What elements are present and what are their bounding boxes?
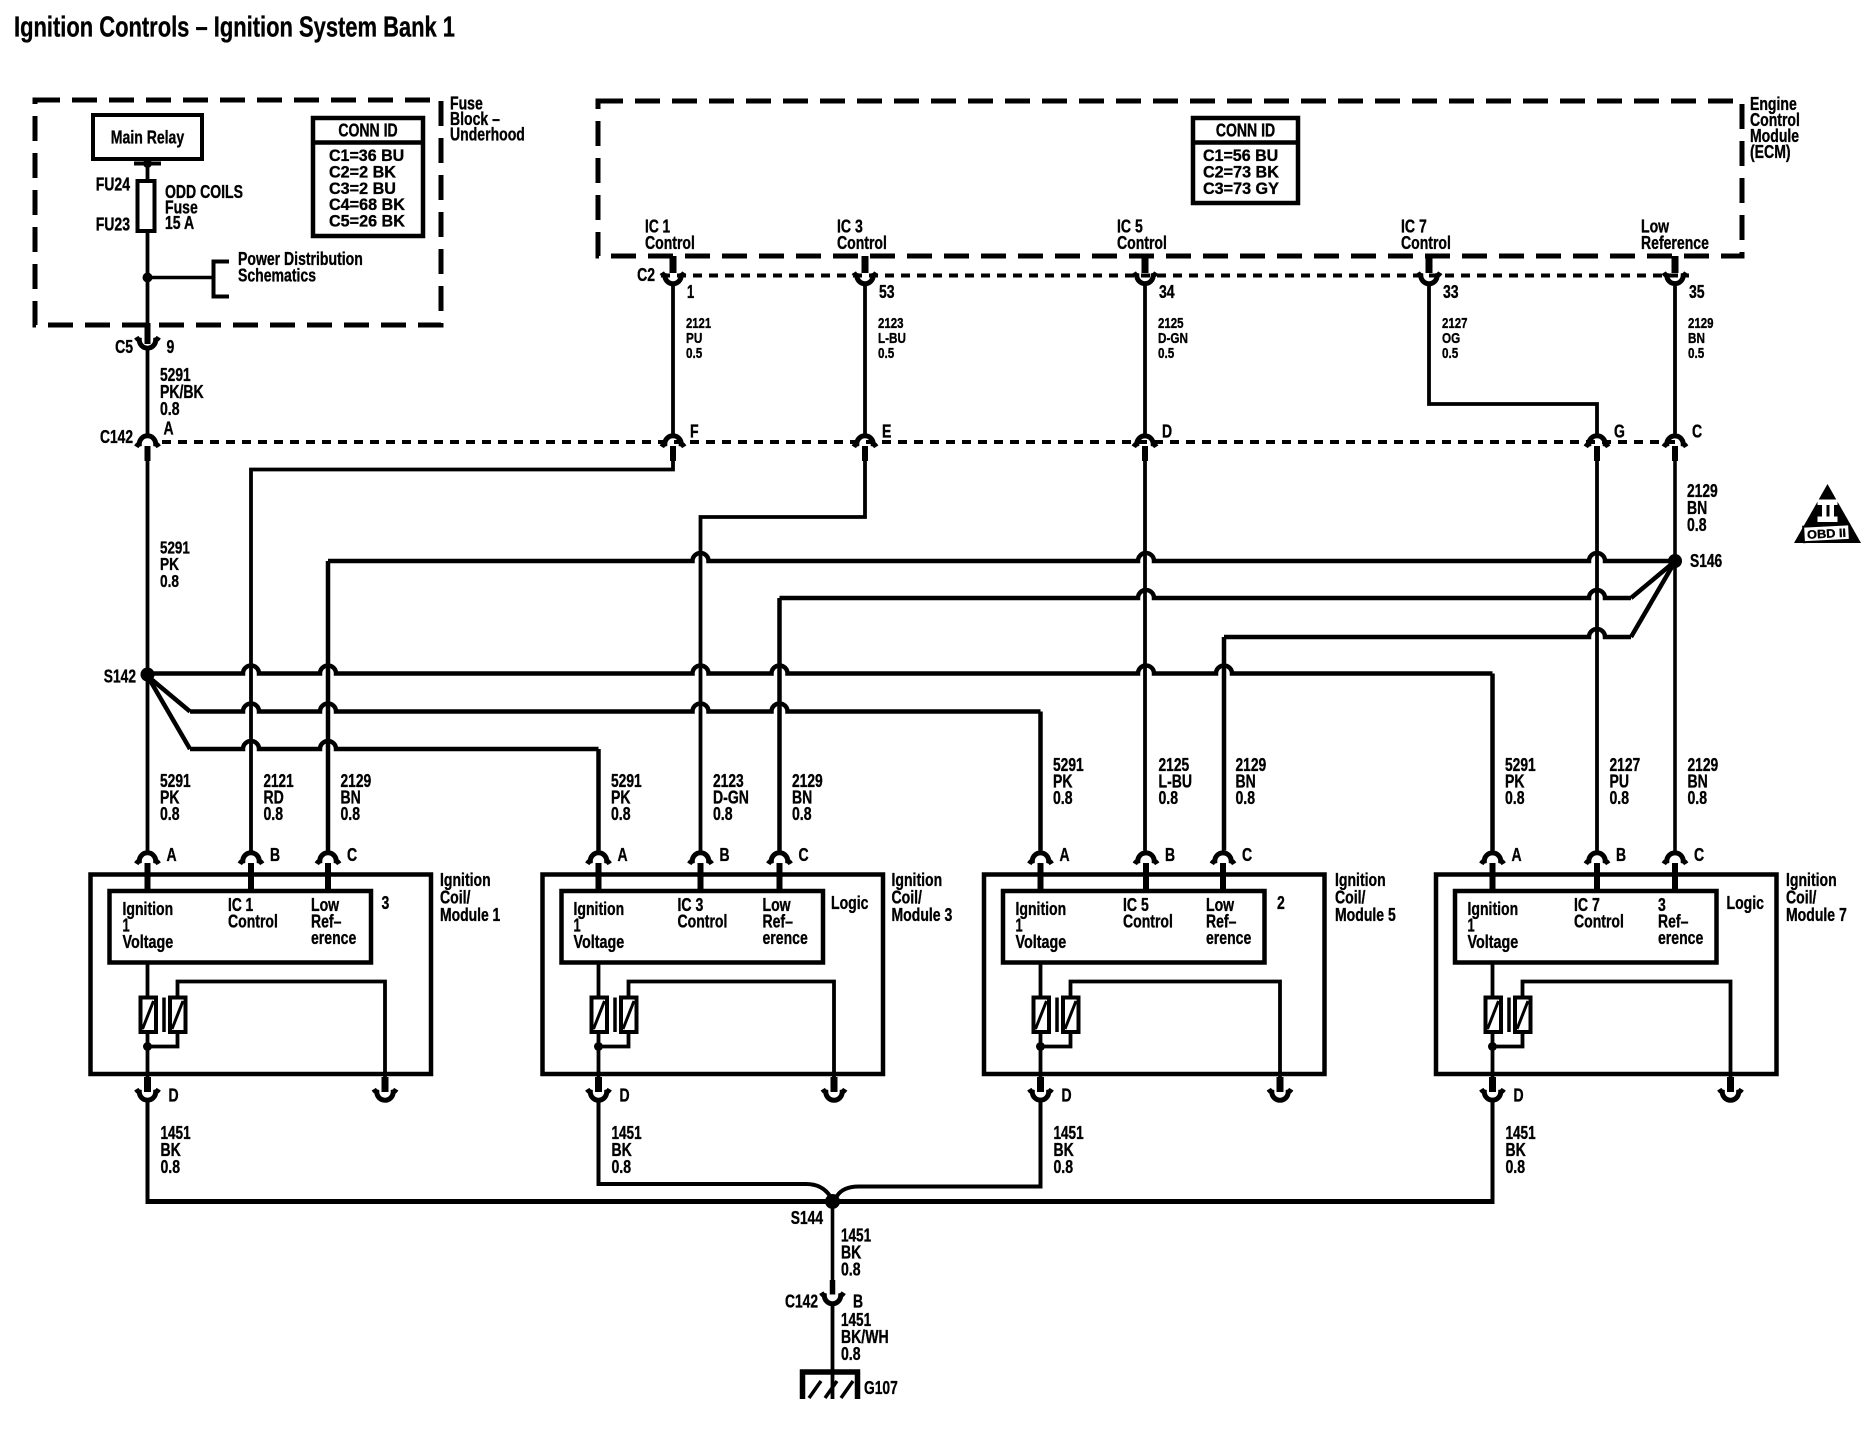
svg-text:0.8: 0.8 bbox=[341, 804, 361, 824]
CONN ID table fuse block bbox=[313, 118, 423, 236]
svg-text:0.8: 0.8 bbox=[161, 1157, 181, 1177]
svg-text:0.8: 0.8 bbox=[841, 1344, 861, 1364]
svg-text:C5=26 BK: C5=26 BK bbox=[329, 211, 406, 230]
connector C142 F bbox=[662, 436, 684, 447]
connector terminal B bbox=[1135, 853, 1157, 864]
wire coil secondary to output bbox=[1071, 982, 1281, 1078]
CONN ID table ECM bbox=[1193, 118, 1298, 203]
wire 5291 PK/BK bbox=[146, 351, 150, 434]
svg-text:0.8: 0.8 bbox=[264, 804, 284, 824]
svg-text:0.5: 0.5 bbox=[1442, 345, 1458, 362]
svg-text:Control: Control bbox=[1574, 912, 1624, 932]
wire coil secondary to output bbox=[1523, 982, 1731, 1078]
svg-text:erence: erence bbox=[311, 928, 356, 948]
wire C142 dashed row bbox=[162, 440, 1675, 444]
connector terminal B bbox=[1586, 853, 1608, 864]
svg-text:Schematics: Schematics bbox=[238, 266, 316, 286]
module outer box bbox=[91, 875, 432, 1075]
svg-text:Logic: Logic bbox=[831, 893, 868, 913]
svg-text:B: B bbox=[1165, 845, 1175, 865]
relay Main Relay bbox=[93, 115, 202, 159]
svg-text:Control: Control bbox=[228, 912, 278, 932]
wire 2121 to C142 F bbox=[671, 286, 675, 434]
svg-text:(ECM): (ECM) bbox=[1750, 142, 1791, 162]
svg-text:Main Relay: Main Relay bbox=[111, 128, 184, 148]
svg-text:Voltage: Voltage bbox=[1016, 932, 1067, 952]
wire module3 D to S144 bbox=[599, 1102, 833, 1202]
svg-text:Module 3: Module 3 bbox=[892, 905, 953, 925]
connector C142 G bbox=[1586, 436, 1608, 447]
svg-text:0.8: 0.8 bbox=[1505, 788, 1525, 808]
svg-text:G: G bbox=[1614, 422, 1625, 442]
svg-text:53: 53 bbox=[879, 282, 895, 302]
svg-text:Ignition: Ignition bbox=[574, 899, 625, 919]
svg-text:9: 9 bbox=[167, 337, 175, 357]
ECM box bbox=[598, 101, 1742, 256]
wire 1451 BK ground bus bbox=[146, 1102, 150, 1200]
wire coil secondary to output bbox=[178, 982, 386, 1078]
connector C142 B bbox=[830, 1280, 836, 1295]
svg-text:OBD II: OBD II bbox=[1807, 526, 1847, 542]
svg-text:0.8: 0.8 bbox=[1054, 1157, 1074, 1177]
svg-text:A: A bbox=[1060, 845, 1070, 865]
connector terminal D bbox=[1489, 1077, 1496, 1092]
svg-text:0.5: 0.5 bbox=[878, 345, 894, 362]
wire 5291 PK bus S142 to module7 A bbox=[153, 666, 1493, 674]
wire 1451 BK to C142 B bbox=[831, 1202, 835, 1283]
connector C5 pin 9 bbox=[145, 323, 151, 344]
connector terminal B bbox=[240, 853, 262, 864]
svg-text:C142: C142 bbox=[100, 427, 133, 447]
svg-text:0.8: 0.8 bbox=[611, 804, 631, 824]
connector terminal D bbox=[144, 1077, 151, 1092]
wire 2127 PU C142 G to module7 B bbox=[1595, 461, 1599, 851]
connector terminal C bbox=[317, 853, 339, 864]
svg-text:F: F bbox=[690, 422, 699, 442]
svg-text:0.5: 0.5 bbox=[1688, 345, 1704, 362]
connector terminal D bbox=[1037, 1077, 1044, 1092]
wire 2129 BN C142 C to module7 C bbox=[1673, 461, 1677, 851]
OBD II symbol bbox=[1794, 484, 1861, 543]
svg-text:3: 3 bbox=[382, 893, 390, 913]
svg-text:0.8: 0.8 bbox=[1610, 788, 1630, 808]
svg-text:D: D bbox=[1162, 422, 1172, 442]
svg-text:Ignition Controls – Ignition S: Ignition Controls – Ignition System Bank… bbox=[14, 12, 455, 44]
svg-text:CONN ID: CONN ID bbox=[338, 121, 397, 141]
wire 1451 BK/WH to ground bbox=[831, 1306, 835, 1399]
wire fuse to C5 bbox=[146, 231, 150, 325]
svg-text:0.8: 0.8 bbox=[160, 571, 179, 591]
svg-text:Reference: Reference bbox=[1641, 233, 1709, 253]
wire 2127 jog to C142 G bbox=[1429, 286, 1597, 434]
svg-text:B: B bbox=[1616, 845, 1626, 865]
svg-text:0.8: 0.8 bbox=[1159, 788, 1179, 808]
svg-text:E: E bbox=[882, 422, 891, 442]
connector terminal D bbox=[595, 1077, 602, 1092]
svg-text:0.8: 0.8 bbox=[1053, 788, 1073, 808]
coil windings bbox=[1039, 963, 1043, 998]
svg-text:C2: C2 bbox=[637, 265, 655, 285]
svg-text:Control: Control bbox=[1117, 233, 1167, 253]
svg-text:0.5: 0.5 bbox=[686, 345, 702, 362]
svg-text:D: D bbox=[1062, 1086, 1072, 1106]
svg-text:0.8: 0.8 bbox=[612, 1157, 632, 1177]
coil windings bbox=[1491, 963, 1495, 998]
svg-text:erence: erence bbox=[1658, 928, 1703, 948]
svg-text:Control: Control bbox=[1401, 233, 1451, 253]
wire 2123 to C142 E bbox=[863, 286, 867, 434]
module outer box bbox=[1436, 875, 1777, 1075]
svg-text:D: D bbox=[169, 1086, 179, 1106]
svg-text:C: C bbox=[799, 845, 809, 865]
coil windings bbox=[597, 963, 601, 998]
module outer box bbox=[984, 875, 1325, 1075]
svg-text:Control: Control bbox=[678, 912, 728, 932]
svg-text:35: 35 bbox=[1689, 282, 1705, 302]
wire 5291 PK bus S142 to module3 A bbox=[148, 676, 191, 749]
svg-text:C3=73 GY: C3=73 GY bbox=[1203, 179, 1280, 198]
wire C2 dashed row bbox=[661, 274, 1689, 278]
wire 2129 BN bus module3 C to S146 bbox=[780, 590, 1632, 598]
svg-text:A: A bbox=[164, 419, 174, 439]
svg-text:Ignition: Ignition bbox=[123, 899, 174, 919]
connector terminal C bbox=[768, 853, 790, 864]
svg-text:0.8: 0.8 bbox=[1236, 788, 1256, 808]
svg-text:0.8: 0.8 bbox=[1688, 788, 1708, 808]
wire 2129 BN bus module1 C to S146 bbox=[328, 553, 1669, 561]
svg-text:A: A bbox=[1512, 845, 1522, 865]
svg-text:0.8: 0.8 bbox=[160, 399, 180, 419]
svg-text:1: 1 bbox=[687, 282, 694, 302]
svg-text:C142: C142 bbox=[785, 1292, 818, 1312]
svg-text:S146: S146 bbox=[1690, 551, 1722, 571]
connector terminal A bbox=[1029, 853, 1051, 864]
svg-text:erence: erence bbox=[1206, 928, 1251, 948]
svg-text:0.8: 0.8 bbox=[160, 804, 180, 824]
svg-text:Ignition: Ignition bbox=[1468, 899, 1519, 919]
svg-text:Voltage: Voltage bbox=[574, 932, 625, 952]
svg-text:Voltage: Voltage bbox=[123, 932, 174, 952]
svg-text:0.8: 0.8 bbox=[1506, 1157, 1526, 1177]
svg-text:A: A bbox=[618, 845, 628, 865]
connector terminal C bbox=[1212, 853, 1234, 864]
connector terminal A bbox=[587, 853, 609, 864]
svg-text:Ignition: Ignition bbox=[1016, 899, 1067, 919]
connector terminal A bbox=[1481, 853, 1503, 864]
connector C142 D bbox=[1134, 436, 1156, 447]
svg-text:34: 34 bbox=[1159, 282, 1175, 302]
wire 2123 D-GN C142 E to module3 B bbox=[701, 461, 866, 851]
fuse block underhood box bbox=[35, 100, 441, 325]
svg-text:Module 1: Module 1 bbox=[440, 905, 500, 925]
svg-text:Module 7: Module 7 bbox=[1786, 905, 1847, 925]
svg-text:Module 5: Module 5 bbox=[1335, 905, 1396, 925]
svg-text:B: B bbox=[853, 1292, 863, 1312]
svg-text:0.8: 0.8 bbox=[1687, 515, 1707, 535]
connector terminal A bbox=[136, 853, 158, 864]
svg-text:C: C bbox=[347, 845, 357, 865]
wire module5 D to S144 bbox=[833, 1102, 1041, 1202]
svg-text:Control: Control bbox=[1123, 912, 1173, 932]
svg-text:CONN ID: CONN ID bbox=[1216, 121, 1275, 141]
svg-text:0.8: 0.8 bbox=[841, 1260, 861, 1280]
svg-text:Voltage: Voltage bbox=[1468, 932, 1519, 952]
svg-text:C5: C5 bbox=[115, 337, 133, 357]
connector terminal B bbox=[689, 853, 711, 864]
wire 5291 PK to S142 bbox=[146, 461, 150, 851]
wire coil secondary to output bbox=[629, 982, 835, 1078]
svg-text:Logic: Logic bbox=[1727, 893, 1764, 913]
svg-text:33: 33 bbox=[1443, 282, 1459, 302]
node S144 bbox=[825, 1194, 840, 1209]
wire 2125 to C142 D bbox=[1143, 286, 1147, 434]
node power distribution tap bbox=[143, 273, 153, 283]
coil windings bbox=[146, 963, 150, 998]
wire 2121 RD C142 F to module1 B bbox=[251, 461, 673, 851]
svg-text:B: B bbox=[270, 845, 280, 865]
svg-text:C: C bbox=[1694, 845, 1704, 865]
fuse ODD COILS 15A bbox=[138, 181, 155, 231]
svg-text:C: C bbox=[1692, 422, 1702, 442]
svg-text:0.8: 0.8 bbox=[792, 804, 812, 824]
wire 2129 BN bus module5 C to S146 bbox=[1224, 629, 1631, 637]
svg-text:0.5: 0.5 bbox=[1158, 345, 1174, 362]
connector C142 C bbox=[1664, 436, 1686, 447]
connector C142 E bbox=[854, 436, 876, 447]
node S146 bbox=[1668, 554, 1682, 568]
svg-text:D: D bbox=[1514, 1086, 1524, 1106]
svg-text:S142: S142 bbox=[104, 667, 136, 687]
ground G107 bbox=[803, 1372, 858, 1399]
wire 2129 to C142 C bbox=[1673, 286, 1677, 434]
svg-text:15 A: 15 A bbox=[165, 213, 194, 233]
svg-text:2: 2 bbox=[1277, 893, 1285, 913]
svg-text:FU24: FU24 bbox=[96, 175, 130, 195]
wire relay to fuse bbox=[146, 159, 150, 181]
svg-text:Underhood: Underhood bbox=[450, 125, 525, 145]
node S142 bbox=[141, 668, 155, 682]
svg-text:G107: G107 bbox=[864, 1378, 898, 1398]
svg-text:B: B bbox=[720, 845, 730, 865]
svg-text:0.8: 0.8 bbox=[713, 804, 733, 824]
svg-text:A: A bbox=[167, 845, 177, 865]
wire 5291 PK bus S142 to module5 A bbox=[148, 676, 191, 712]
svg-text:S144: S144 bbox=[791, 1208, 823, 1228]
module outer box bbox=[543, 875, 884, 1075]
svg-text:erence: erence bbox=[763, 928, 808, 948]
wire 2125 L-BU C142 D to module5 B bbox=[1143, 461, 1147, 851]
svg-text:Control: Control bbox=[837, 233, 887, 253]
svg-text:D: D bbox=[620, 1086, 630, 1106]
connector terminal C bbox=[1664, 853, 1686, 864]
svg-text:Control: Control bbox=[645, 233, 695, 253]
svg-text:FU23: FU23 bbox=[96, 215, 130, 235]
svg-text:C: C bbox=[1242, 845, 1252, 865]
